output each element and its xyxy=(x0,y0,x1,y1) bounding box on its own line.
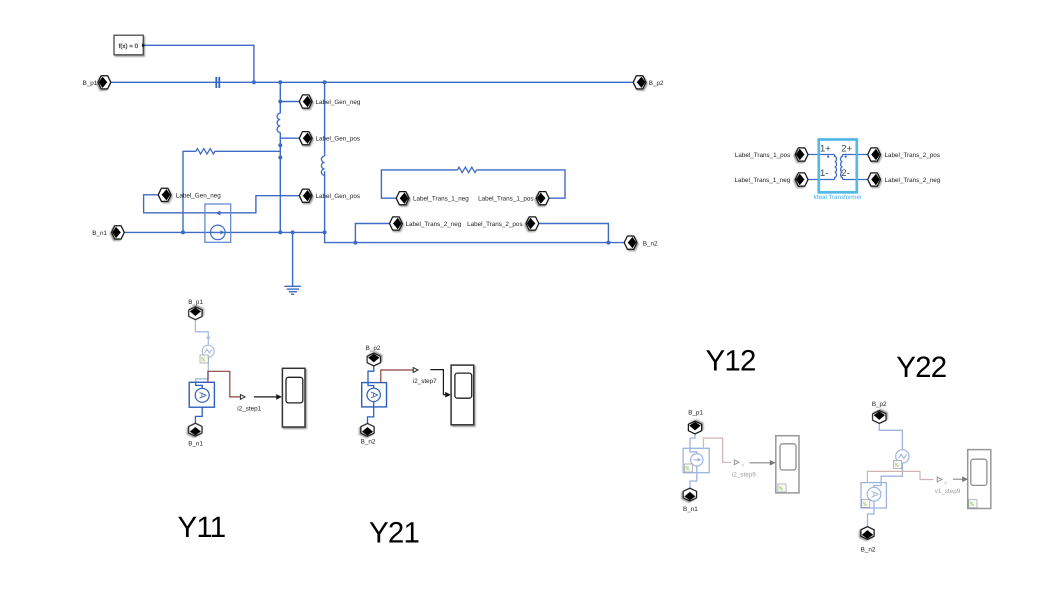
svg-text:A: A xyxy=(868,491,879,498)
svg-text:Label_Trans_1_neg: Label_Trans_1_neg xyxy=(413,196,469,203)
svg-text:B_n1: B_n1 xyxy=(683,506,698,513)
svg-text:A: A xyxy=(197,392,208,399)
svg-text:B_p2: B_p2 xyxy=(872,401,887,408)
svg-text:Label_Trans_1_neg: Label_Trans_1_neg xyxy=(735,177,791,184)
svg-text:Label_Trans_2_pos: Label_Trans_2_pos xyxy=(467,221,522,228)
svg-text:B_p2: B_p2 xyxy=(649,80,664,87)
svg-text:Label_Trans_2_pos: Label_Trans_2_pos xyxy=(885,152,940,159)
svg-text:Label_Gen_pos: Label_Gen_pos xyxy=(316,136,360,143)
svg-text:Y11: Y11 xyxy=(178,511,226,544)
svg-text:Label_Trans_2_neg: Label_Trans_2_neg xyxy=(885,177,941,184)
svg-text:B_p2: B_p2 xyxy=(366,345,381,352)
svg-text:B_p1: B_p1 xyxy=(83,80,98,87)
svg-text:1-: 1- xyxy=(820,168,828,179)
svg-text:Y12: Y12 xyxy=(706,345,756,378)
svg-text:B_n1: B_n1 xyxy=(92,230,107,237)
svg-text:i2_step1: i2_step1 xyxy=(237,405,261,412)
svg-text:Label_Gen_neg: Label_Gen_neg xyxy=(316,99,361,106)
svg-text:v1_step9: v1_step9 xyxy=(935,488,961,495)
svg-text:x: x xyxy=(944,480,947,486)
svg-text:B_n2: B_n2 xyxy=(643,241,658,248)
svg-text:Label_Gen_neg: Label_Gen_neg xyxy=(176,193,221,200)
svg-text:Ideal Transformer: Ideal Transformer xyxy=(813,194,862,201)
svg-text:B_n1: B_n1 xyxy=(188,441,203,448)
svg-text:Label_Gen_pos: Label_Gen_pos xyxy=(316,193,360,200)
svg-text:Label_Trans_1_pos: Label_Trans_1_pos xyxy=(735,152,790,159)
svg-text:Label_Trans_1_pos: Label_Trans_1_pos xyxy=(478,196,533,203)
svg-text:B_p1: B_p1 xyxy=(188,299,203,306)
svg-text:f(x) = 0: f(x) = 0 xyxy=(119,43,139,50)
svg-text:B_p1: B_p1 xyxy=(688,409,703,416)
svg-text:2+: 2+ xyxy=(841,144,852,155)
svg-text:B_n2: B_n2 xyxy=(861,547,876,554)
svg-text:A: A xyxy=(368,392,379,399)
svg-text:i2_step9: i2_step9 xyxy=(732,471,756,478)
svg-text:1+: 1+ xyxy=(820,144,831,155)
svg-text:B_n2: B_n2 xyxy=(361,439,376,446)
svg-text:i2_step7: i2_step7 xyxy=(413,378,437,385)
svg-text:Label_Trans_2_neg: Label_Trans_2_neg xyxy=(406,221,462,228)
svg-text:x: x xyxy=(742,463,745,469)
svg-text:Y21: Y21 xyxy=(369,517,419,550)
svg-text:2-: 2- xyxy=(841,168,849,179)
svg-text:Y22: Y22 xyxy=(896,351,946,384)
